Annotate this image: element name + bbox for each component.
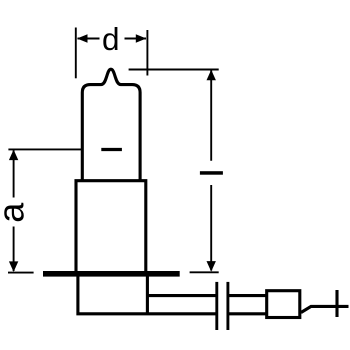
dimension a line upper bbox=[13, 150, 15, 197]
base block lower bbox=[78, 274, 216, 314]
dimension l line upper bbox=[210, 71, 212, 161]
dimension l arrow bottom bbox=[207, 261, 216, 272]
dimension a line lower bbox=[13, 227, 15, 272]
dimension l line lower bbox=[210, 185, 212, 271]
connector body bbox=[267, 291, 300, 318]
label l bbox=[200, 171, 223, 175]
lead wire lower right bbox=[229, 312, 266, 315]
dimension d line left bbox=[78, 38, 100, 40]
dimension a extension line top bbox=[8, 148, 81, 150]
filament mark bbox=[101, 148, 122, 151]
dimension l extension line bottom bbox=[190, 271, 219, 273]
dimension d arrow right bbox=[136, 34, 147, 42]
dimension l arrow top bbox=[207, 70, 216, 81]
flange reference plane bbox=[43, 271, 180, 277]
lead wire upper right bbox=[229, 294, 266, 297]
bulb envelope with tip-off nipple bbox=[82, 69, 140, 181]
dimension d extension line left bbox=[75, 28, 77, 79]
dimension d line right bbox=[125, 38, 147, 40]
output wire bbox=[301, 306, 349, 312]
cable break bar right bbox=[226, 282, 229, 330]
dimension a extension line bottom bbox=[8, 272, 34, 274]
lead wire upper bbox=[147, 294, 216, 297]
dimension a arrow bottom bbox=[9, 261, 18, 272]
wire end cross bbox=[335, 290, 338, 317]
cable break bar left bbox=[215, 282, 218, 330]
dimension a arrow top bbox=[9, 150, 18, 161]
base block upper bbox=[76, 181, 146, 273]
svg-text:a: a bbox=[0, 202, 32, 223]
svg-text:d: d bbox=[102, 21, 120, 57]
dimension d arrow left bbox=[77, 34, 88, 42]
dimension d extension line right bbox=[146, 30, 148, 76]
dimension l extension line top bbox=[129, 69, 219, 71]
